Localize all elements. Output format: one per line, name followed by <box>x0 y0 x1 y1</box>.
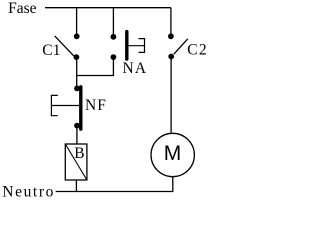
coil B diagonal <box>65 144 87 180</box>
wire C1 to NF <box>76 57 78 88</box>
wire NA to junction <box>77 57 114 75</box>
motor M circle <box>151 133 194 176</box>
switch C2 arm <box>174 39 188 54</box>
wire coil B to Neutro <box>75 180 77 192</box>
svg-text:C1: C1 <box>42 42 61 59</box>
wire motor to Neutro <box>172 177 174 192</box>
contact dot C1 bottom <box>74 54 80 60</box>
contact dot NF bottom <box>74 123 80 129</box>
wire Neutro rail <box>56 191 174 193</box>
wire Fase rail <box>45 7 171 9</box>
wire drop to C1 <box>76 8 78 37</box>
pushbutton NF handle <box>51 95 57 115</box>
contact dot C2 top <box>168 33 174 39</box>
svg-text:Neutro: Neutro <box>2 184 55 201</box>
svg-text:C2: C2 <box>187 42 207 59</box>
contact dot NA top <box>111 34 117 40</box>
svg-text:NA: NA <box>123 60 148 77</box>
wire NF to coil B <box>76 126 78 144</box>
pushbutton NA handle <box>139 39 145 53</box>
svg-text:M: M <box>164 142 182 165</box>
coil B box <box>65 144 87 180</box>
wire C2 to motor <box>170 57 172 134</box>
pushbutton NA shaft <box>128 45 144 47</box>
contact dot C2 bottom <box>168 54 174 60</box>
pushbutton NF shaft <box>51 105 79 107</box>
svg-text:Fase: Fase <box>8 0 37 17</box>
pushbutton NA bar <box>125 32 128 59</box>
svg-text:B: B <box>74 145 84 162</box>
switch C1 arm <box>55 36 74 56</box>
svg-text:NF: NF <box>85 97 107 114</box>
contact dot NA bottom <box>111 54 117 60</box>
contact dot C1 top <box>74 33 80 39</box>
wire drop to C2 <box>170 8 172 37</box>
pushbutton NF bar <box>79 87 82 129</box>
wire drop to NA <box>112 8 114 37</box>
contact dot NF top <box>74 86 80 92</box>
